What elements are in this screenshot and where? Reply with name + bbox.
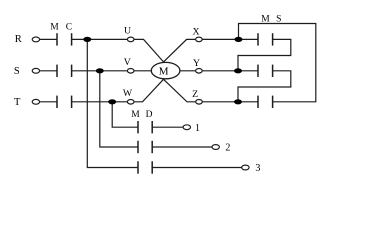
terminal T (32, 99, 39, 104)
junction dot X row (235, 37, 243, 42)
contact M C pole S (57, 65, 72, 77)
wire T lead (38, 101, 57, 103)
junction dot R row (83, 37, 91, 42)
svg-text:T: T (14, 97, 21, 108)
wire V to motor (131, 70, 152, 72)
terminal Z (196, 100, 203, 105)
terminal 3 (242, 165, 249, 170)
wire R row to U (72, 38, 131, 40)
svg-text:2: 2 (225, 143, 230, 154)
svg-text:V: V (124, 57, 131, 68)
wire X row to contact (199, 38, 258, 40)
contactor M D label (131, 110, 152, 120)
contact M D pole 3 (138, 161, 152, 173)
svg-text:M: M (159, 65, 169, 77)
terminal X (196, 37, 203, 42)
wire Z to motor (164, 79, 200, 102)
junction dot Y row (234, 68, 242, 73)
terminal S (32, 68, 39, 73)
contactor M C label (50, 23, 72, 33)
svg-text:R: R (15, 34, 22, 45)
wire drop T to row 1 (112, 102, 138, 127)
wire R lead (38, 38, 57, 40)
contact M D pole 1 (138, 121, 152, 133)
wire row 1 out (152, 126, 187, 128)
wire Y contact out to Z node (238, 71, 291, 102)
terminal U (127, 37, 134, 42)
svg-text:C: C (66, 23, 72, 33)
wire motor to Y (179, 70, 199, 72)
wire W to motor (131, 79, 164, 102)
contact M C pole R (57, 33, 72, 45)
wire Y row to contact (199, 70, 258, 72)
svg-text:D: D (146, 110, 153, 120)
contactor M S label (261, 15, 281, 25)
junction dot S row (96, 68, 104, 73)
wire Z contact out to X node (239, 24, 316, 102)
wire T row to W (72, 101, 131, 103)
terminal R (32, 37, 39, 42)
contact M S pole Y (258, 65, 273, 77)
contact M S pole Z (258, 96, 273, 108)
wire drop S to row 2 (100, 71, 138, 147)
terminal 2 (212, 145, 219, 150)
svg-text:1: 1 (195, 123, 200, 134)
wire U to motor (131, 39, 164, 62)
wire S row to V (72, 70, 131, 72)
svg-text:W: W (123, 88, 133, 99)
terminal W (127, 100, 134, 105)
junction dot Z row (234, 99, 242, 104)
svg-text:U: U (124, 26, 131, 37)
wire Z row to contact (199, 101, 258, 103)
contact M S pole X (258, 33, 273, 45)
contact M C pole T (57, 96, 72, 108)
junction dot T row (108, 99, 116, 104)
svg-text:X: X (193, 26, 200, 37)
svg-text:Y: Y (193, 58, 200, 69)
motor U1 ellipse (151, 62, 180, 78)
svg-text:S: S (14, 66, 20, 77)
wire S lead (38, 70, 57, 72)
terminal V (127, 69, 134, 74)
wire row 2 out (152, 146, 216, 148)
svg-text:M: M (131, 110, 140, 120)
wire X to motor (164, 39, 199, 62)
wire X contact out to Y node (238, 39, 291, 70)
contact M D pole 2 (138, 141, 152, 153)
wire row 3 out (152, 167, 245, 169)
svg-text:M: M (50, 23, 59, 33)
svg-text:3: 3 (255, 163, 260, 174)
terminal Y (196, 69, 203, 74)
svg-text:Z: Z (192, 89, 198, 100)
terminal 1 (183, 125, 190, 130)
wire drop R to row 3 (87, 39, 138, 167)
